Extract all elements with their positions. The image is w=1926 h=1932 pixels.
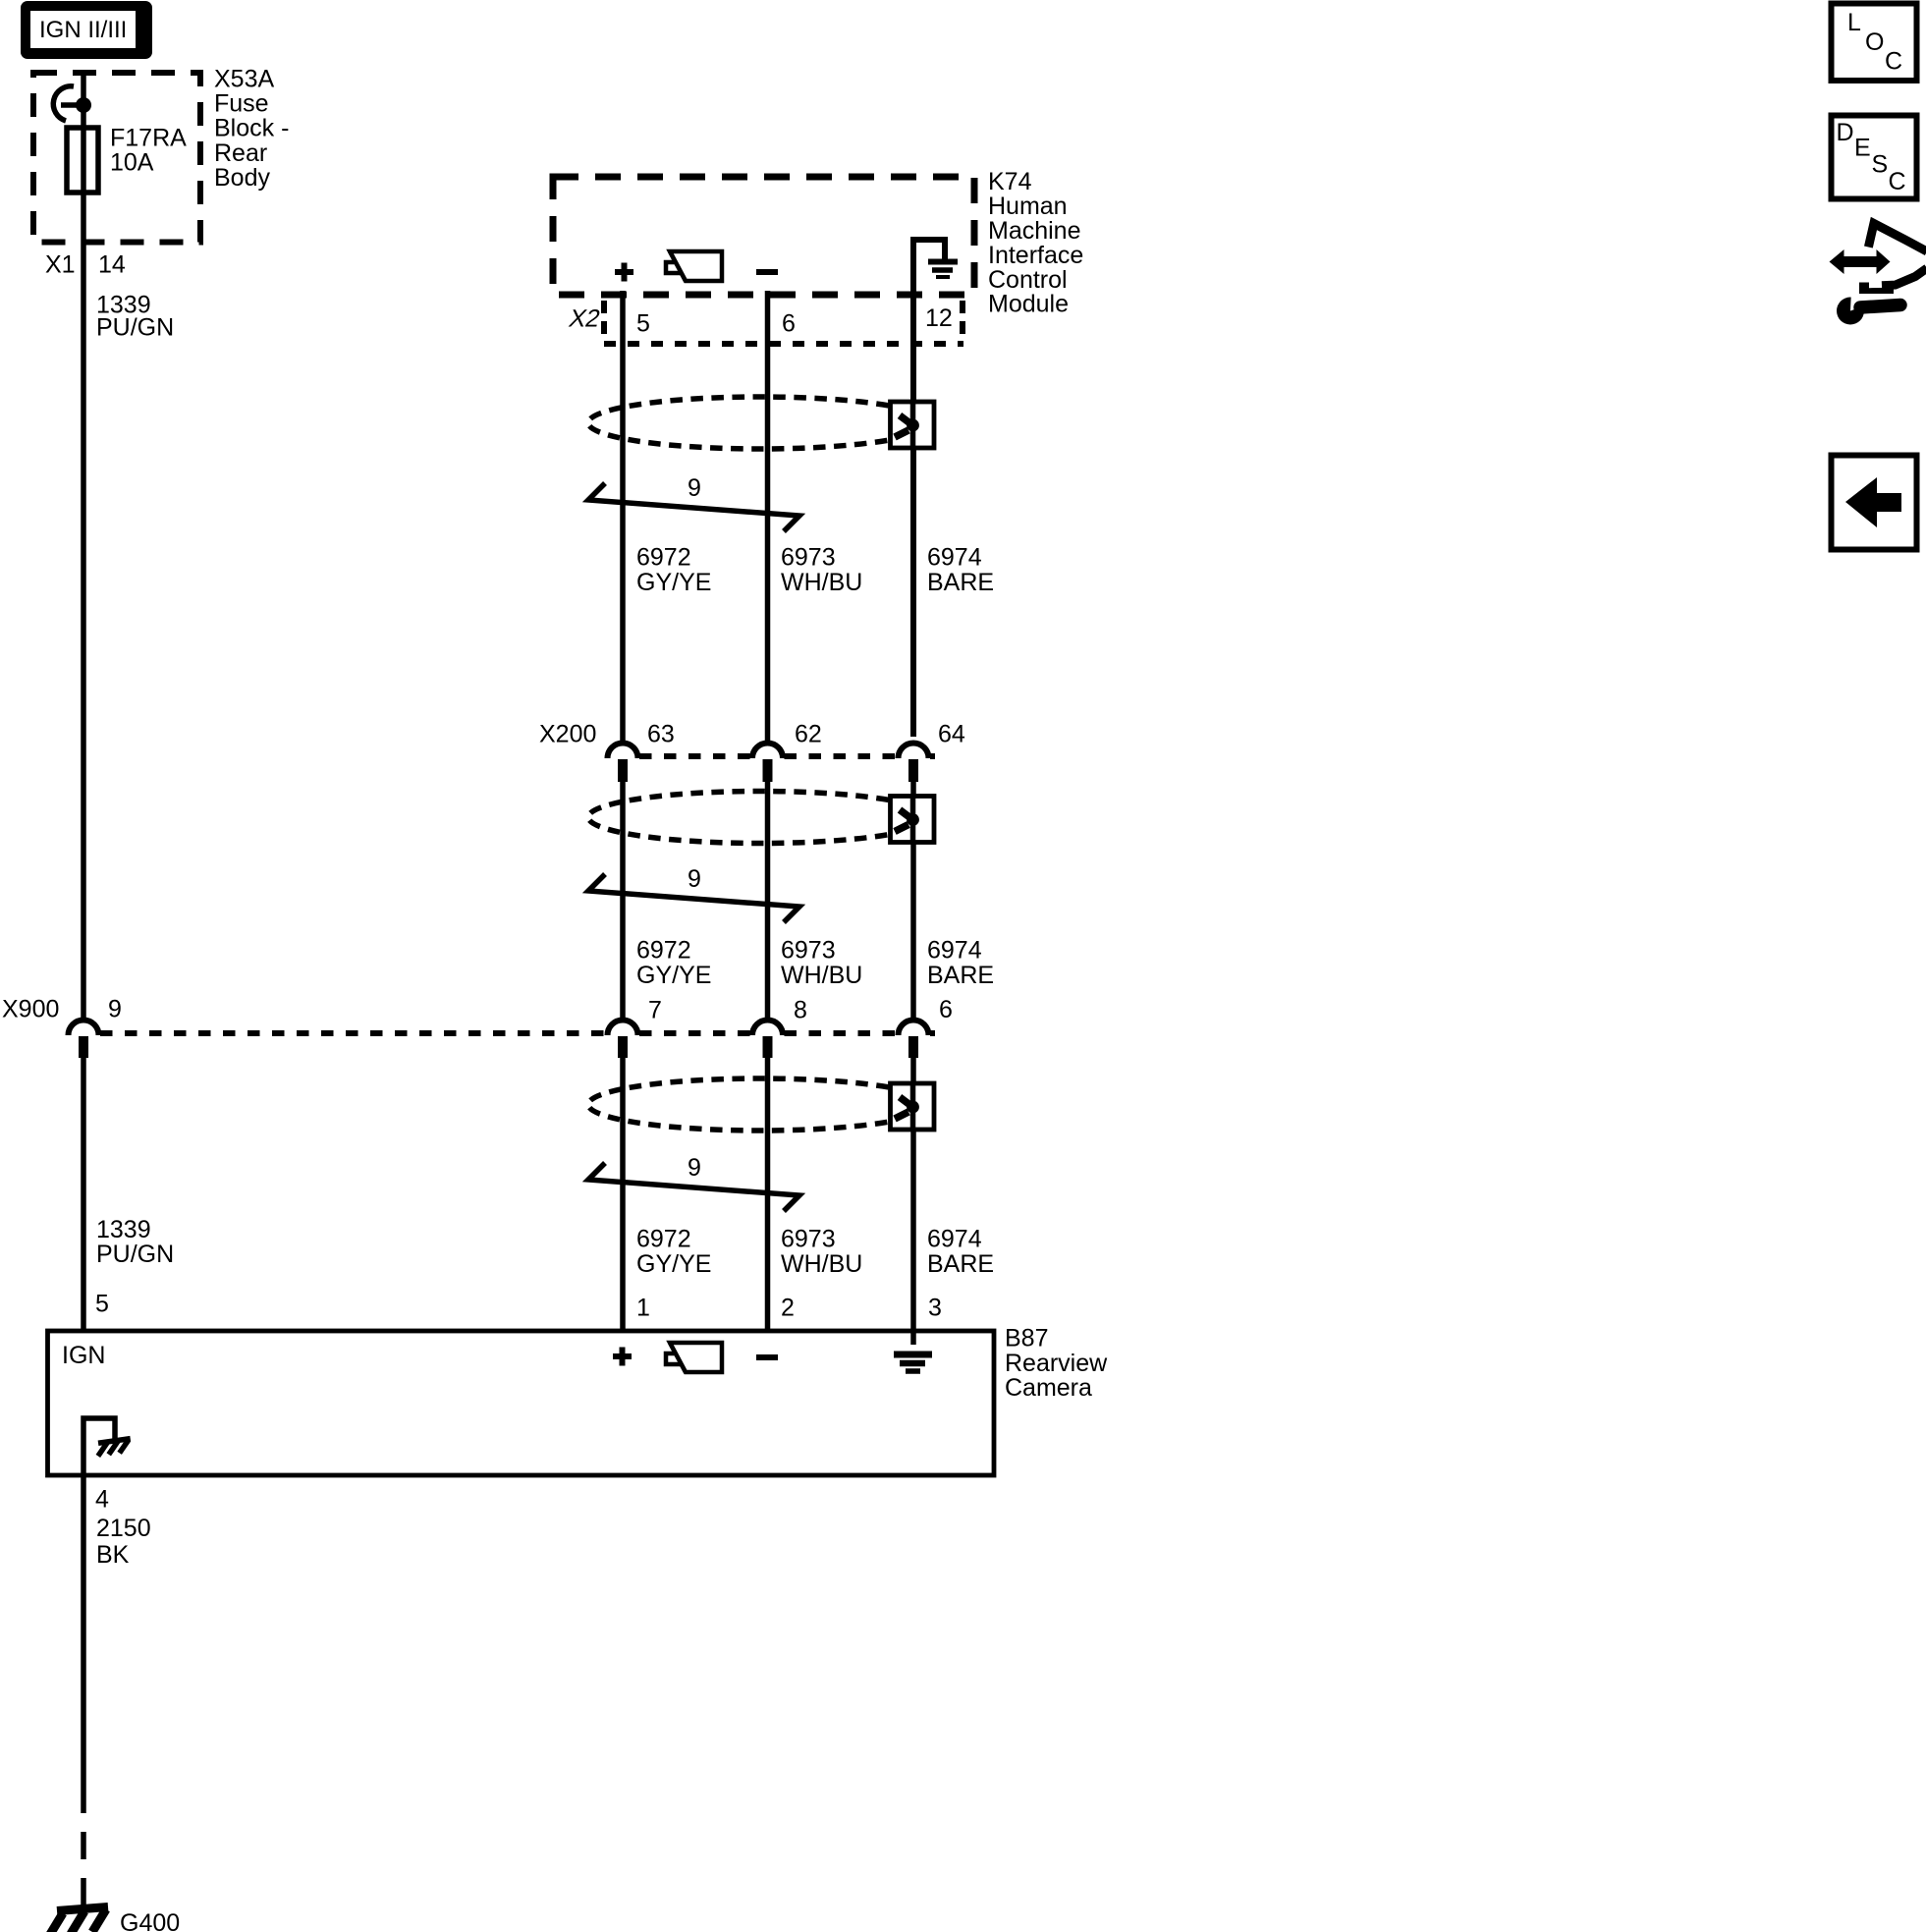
svg-text:GY/YE: GY/YE	[636, 569, 711, 596]
svg-text:X1: X1	[45, 251, 76, 279]
svg-text:Fuse: Fuse	[214, 90, 269, 118]
svg-text:10A: 10A	[110, 149, 154, 177]
svg-text:IGN: IGN	[62, 1342, 105, 1369]
svg-text:6974: 6974	[927, 544, 982, 572]
svg-text:9: 9	[108, 996, 122, 1023]
svg-text:5: 5	[95, 1291, 109, 1318]
svg-text:IGN II/III: IGN II/III	[39, 17, 127, 43]
svg-text:GY/YE: GY/YE	[636, 962, 711, 989]
svg-text:WH/BU: WH/BU	[781, 569, 862, 596]
svg-text:BK: BK	[96, 1541, 130, 1569]
svg-text:BARE: BARE	[927, 962, 994, 989]
svg-text:Interface: Interface	[988, 242, 1083, 269]
svg-text:BARE: BARE	[927, 1250, 994, 1278]
svg-text:62: 62	[795, 721, 822, 748]
svg-text:9: 9	[688, 474, 701, 502]
svg-text:Control: Control	[988, 266, 1068, 294]
svg-text:14: 14	[98, 251, 126, 279]
svg-text:X200: X200	[539, 721, 596, 748]
svg-text:G400: G400	[120, 1909, 180, 1932]
svg-text:9: 9	[688, 865, 701, 893]
svg-text:Body: Body	[214, 164, 270, 192]
svg-text:C: C	[1889, 168, 1906, 195]
svg-text:6974: 6974	[927, 1226, 982, 1253]
svg-text:5: 5	[636, 310, 650, 338]
svg-text:4: 4	[95, 1486, 109, 1514]
svg-text:Rearview: Rearview	[1005, 1350, 1108, 1377]
svg-text:64: 64	[938, 721, 965, 748]
svg-text:1339: 1339	[96, 1216, 151, 1243]
svg-text:12: 12	[925, 304, 953, 332]
svg-text:6972: 6972	[636, 1226, 691, 1253]
svg-text:6973: 6973	[781, 937, 836, 965]
svg-text:9: 9	[688, 1154, 701, 1182]
svg-text:Rear: Rear	[214, 139, 267, 167]
svg-text:GY/YE: GY/YE	[636, 1250, 711, 1278]
svg-text:3: 3	[928, 1295, 942, 1322]
svg-text:WH/BU: WH/BU	[781, 1250, 862, 1278]
svg-text:1: 1	[636, 1295, 650, 1322]
svg-text:O: O	[1865, 28, 1884, 56]
svg-text:6972: 6972	[636, 937, 691, 965]
svg-text:63: 63	[647, 721, 675, 748]
svg-text:2150: 2150	[96, 1515, 151, 1542]
svg-text:Human: Human	[988, 193, 1068, 220]
svg-text:Machine: Machine	[988, 217, 1081, 245]
svg-text:6973: 6973	[781, 1226, 836, 1253]
svg-text:S: S	[1872, 151, 1889, 179]
svg-text:F17RA: F17RA	[110, 125, 187, 152]
svg-text:Block -: Block -	[214, 115, 289, 142]
svg-text:E: E	[1854, 135, 1871, 162]
svg-text:6: 6	[939, 996, 953, 1023]
svg-text:6974: 6974	[927, 937, 982, 965]
svg-text:L: L	[1847, 9, 1861, 36]
svg-text:6972: 6972	[636, 544, 691, 572]
svg-text:X900: X900	[2, 996, 59, 1023]
svg-text:K74: K74	[988, 168, 1032, 195]
svg-text:Camera: Camera	[1005, 1374, 1092, 1402]
svg-text:PU/GN: PU/GN	[96, 1241, 174, 1268]
svg-text:B87: B87	[1005, 1325, 1048, 1352]
svg-text:BARE: BARE	[927, 569, 994, 596]
svg-text:8: 8	[794, 997, 807, 1024]
svg-text:C: C	[1885, 48, 1902, 76]
svg-text:6973: 6973	[781, 544, 836, 572]
svg-text:2: 2	[781, 1295, 795, 1322]
svg-text:PU/GN: PU/GN	[96, 314, 174, 342]
svg-text:6: 6	[782, 310, 796, 338]
svg-text:X53A: X53A	[214, 66, 274, 93]
svg-text:Module: Module	[988, 291, 1069, 318]
svg-text:D: D	[1837, 119, 1854, 146]
svg-text:WH/BU: WH/BU	[781, 962, 862, 989]
svg-text:7: 7	[648, 997, 662, 1024]
